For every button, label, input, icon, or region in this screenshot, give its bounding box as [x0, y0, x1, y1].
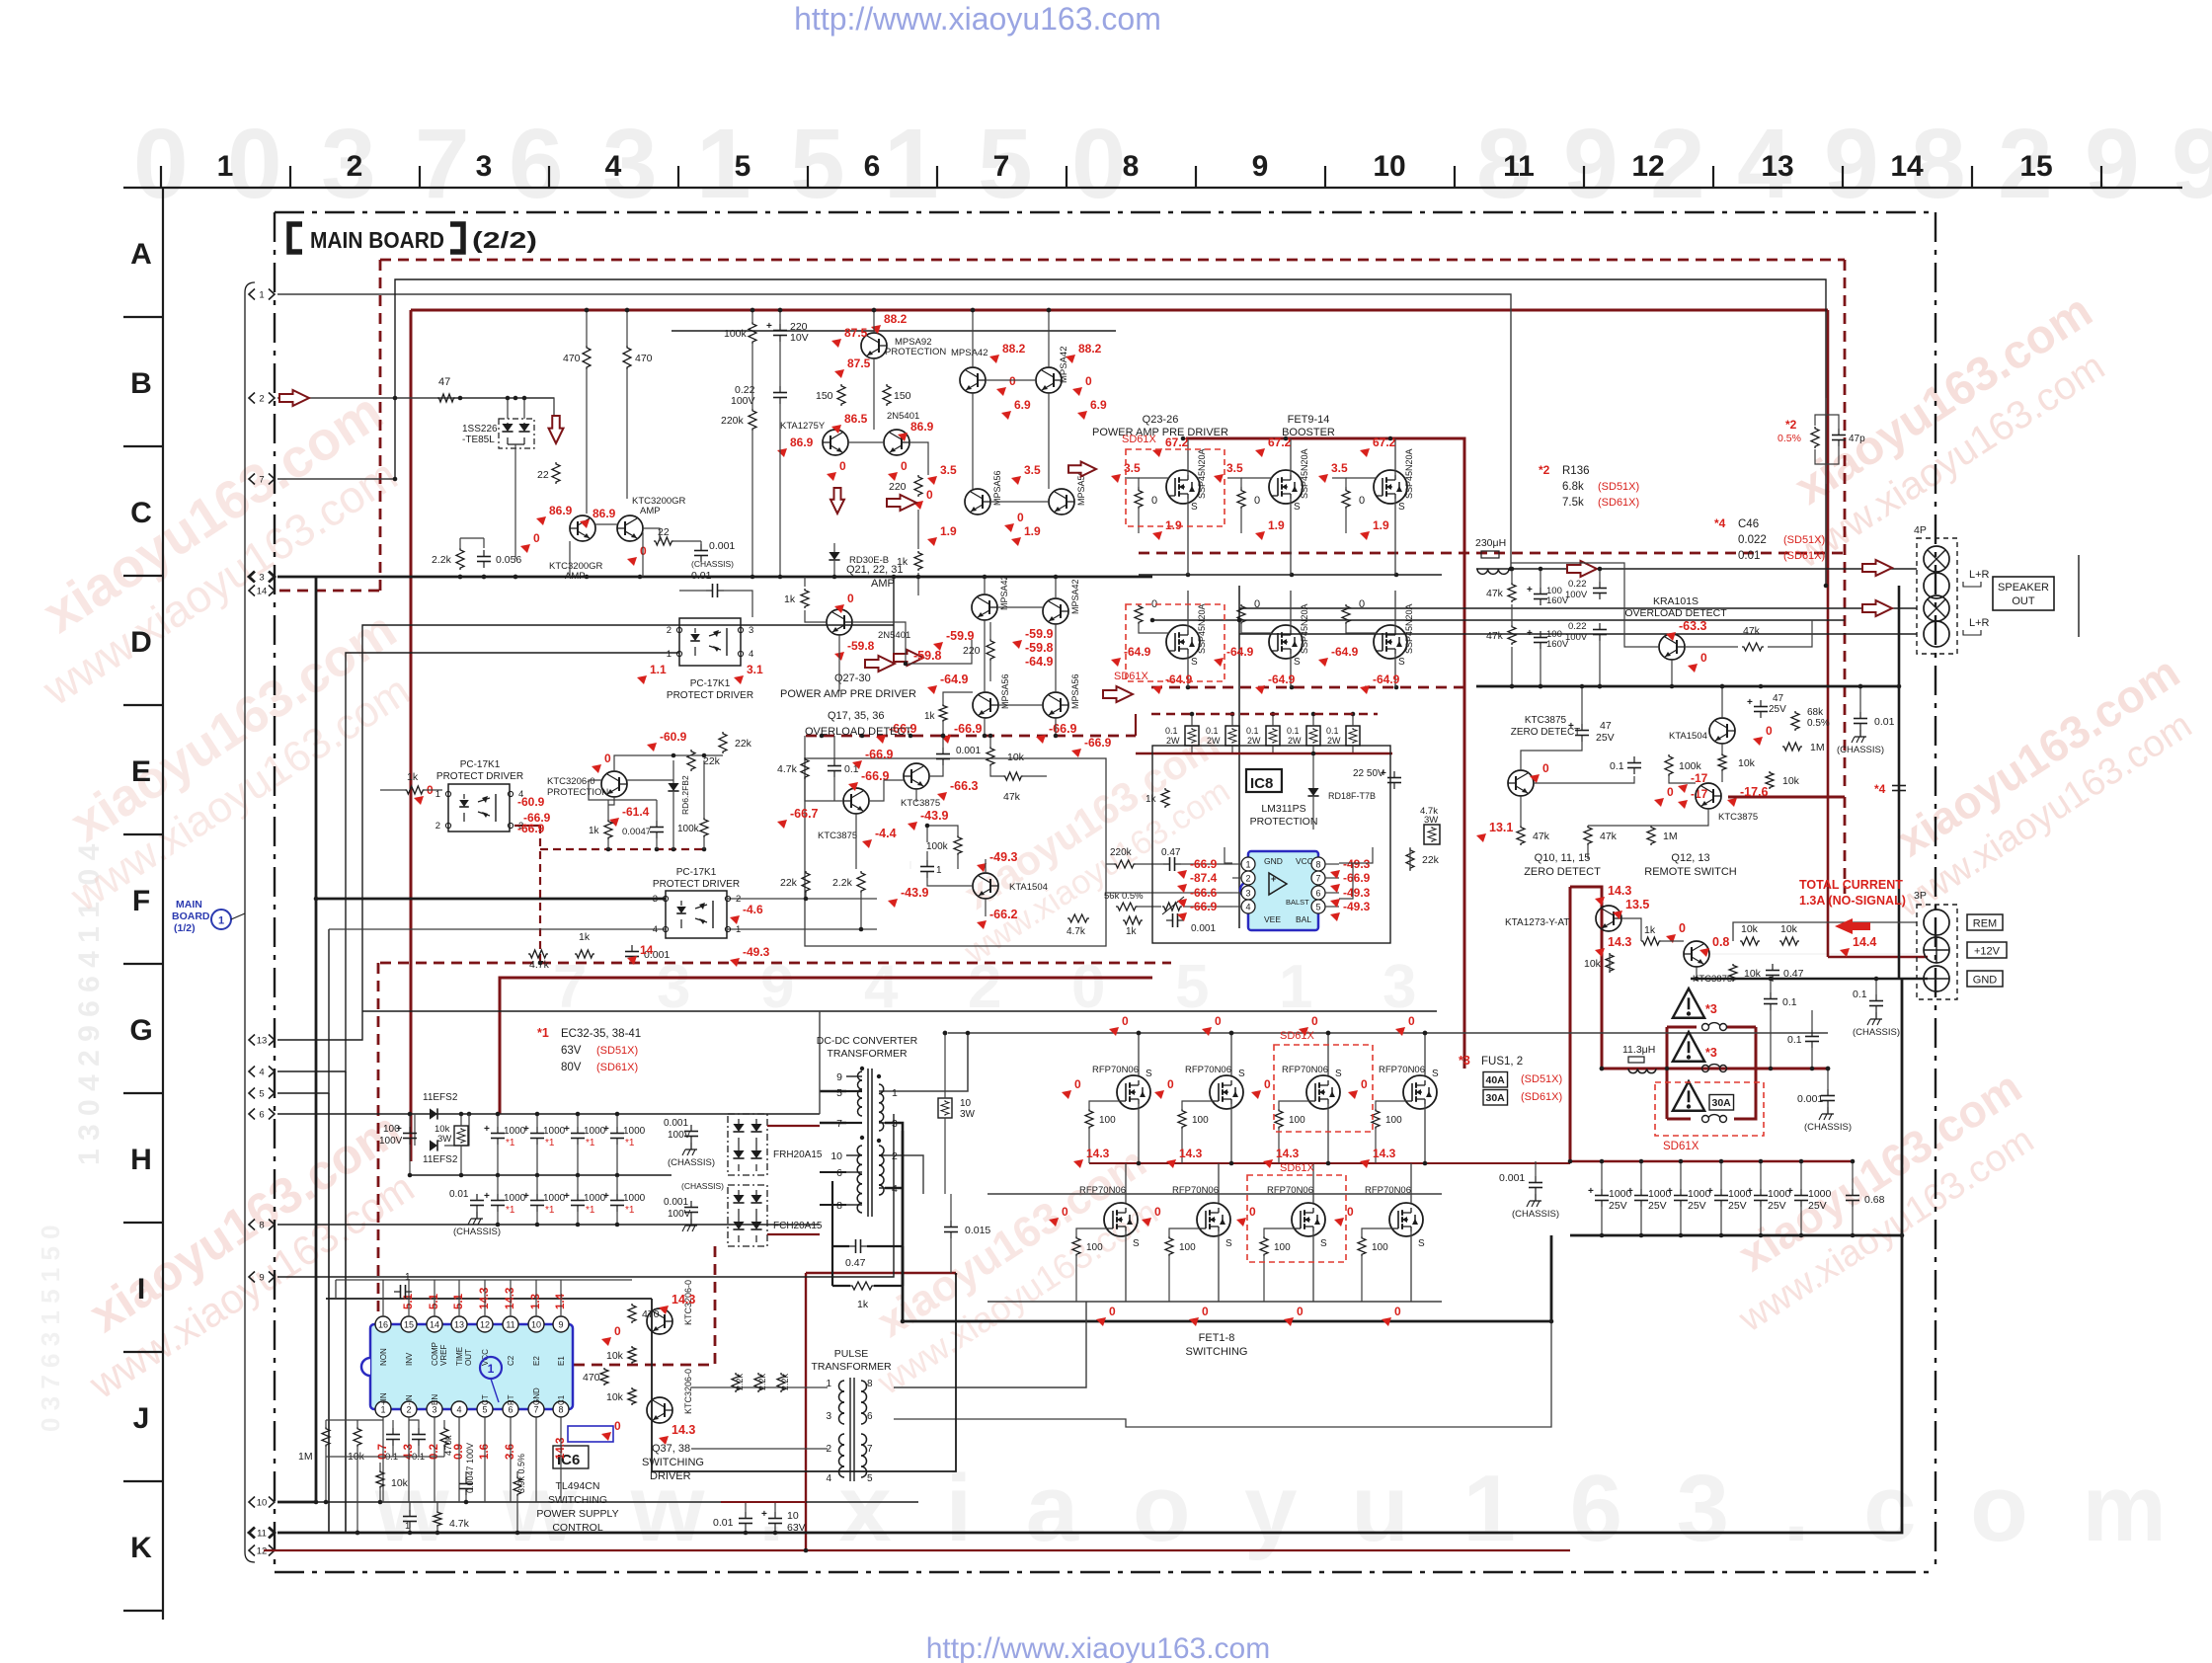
resistor 2.2k a [732, 1373, 745, 1392]
svg-text:C2: C2 [507, 1355, 515, 1366]
capacitor 0.22 100V a [1565, 579, 1607, 600]
watermark pink 2 [46, 1100, 438, 1407]
value 0 fu3 gate [1251, 1077, 1271, 1099]
svg-text:6: 6 [867, 1411, 873, 1422]
svg-text:-87.4: -87.4 [1190, 871, 1218, 885]
svg-text:0.0047 100V: 0.0047 100V [465, 1443, 475, 1493]
svg-text:0.01: 0.01 [691, 570, 712, 582]
svg-text:1k: 1k [1126, 926, 1138, 937]
svg-text:OUT: OUT [464, 1349, 473, 1366]
wire ic8 links [1224, 847, 1410, 899]
svg-text:0.47: 0.47 [1161, 847, 1181, 858]
svg-text:0: 0 [1017, 511, 1024, 524]
resistor 10k rs1 [1740, 923, 1760, 945]
diode bridge FCH20A15 [728, 1185, 823, 1246]
label Q10 11 15 [1524, 852, 1601, 878]
svg-text:9: 9 [1824, 109, 1879, 219]
value -87.4 p2 [1177, 871, 1218, 893]
svg-text:0: 0 [227, 109, 282, 219]
svg-text:-61.4: -61.4 [622, 805, 650, 819]
svg-text:FET1-8: FET1-8 [1199, 1332, 1235, 1344]
resistor 22 b [654, 526, 673, 545]
wire fet source bus [987, 1193, 1442, 1195]
value -60.9 optoE [517, 795, 545, 809]
resistor 4.7k ic8in [1066, 914, 1089, 937]
arrow -59.8 [894, 650, 923, 666]
svg-text:0.1: 0.1 [1787, 1034, 1802, 1046]
resistor 2.2k b [754, 1373, 767, 1392]
svg-text:+: + [1747, 697, 1753, 708]
svg-text:4: 4 [605, 150, 622, 183]
capacitor bank 1000 row2 [484, 1175, 646, 1227]
resistor 1M r [1782, 742, 1825, 753]
svg-text:http://www.xiaoyu163.com: http://www.xiaoyu163.com [794, 1, 1161, 37]
svg-text:88.2: 88.2 [884, 312, 908, 326]
value 0 fl1 src [1096, 1305, 1116, 1326]
svg-text:SSP45N20A: SSP45N20A [1404, 448, 1414, 499]
wire amp mid 628 [1152, 619, 1845, 621]
value -66.9 p1 [1177, 857, 1218, 879]
svg-text:5: 5 [867, 1473, 873, 1484]
wire optoF thin [329, 928, 666, 930]
capacitor *4 [1874, 779, 1906, 797]
wire gnd bus [1691, 978, 1928, 981]
fuse FUS2 [1702, 1065, 1727, 1072]
svg-text:9: 9 [2085, 109, 2140, 219]
svg-text:PROTECTION: PROTECTION [1250, 816, 1318, 828]
svg-text:3: 3 [892, 1118, 898, 1130]
svg-text:0.8: 0.8 [1712, 935, 1729, 949]
capacitor 0.1 ic6 a [385, 1428, 400, 1463]
svg-text:S: S [1238, 1069, 1245, 1079]
value -66.9 s2 [941, 722, 983, 744]
svg-text:3W: 3W [437, 1134, 451, 1145]
resistor 22k f2 [780, 871, 810, 901]
svg-text:12: 12 [480, 1320, 490, 1330]
inductor 230uH [1475, 537, 1509, 574]
svg-text:0.47: 0.47 [1783, 968, 1804, 980]
optocoupler PC-17K1 D [667, 618, 754, 666]
svg-text:0: 0 [1151, 495, 1157, 507]
value -4.6 optoF [730, 903, 763, 924]
svg-text:-63.3: -63.3 [1679, 619, 1707, 633]
wire maroon fuse bottom stub [1667, 1118, 1691, 1121]
wire maroon vertical 1590 [1569, 887, 1572, 1161]
transistor Q KTC3200GR b [617, 496, 686, 541]
svg-text:J: J [133, 1402, 150, 1435]
svg-text:0: 0 [1361, 1077, 1368, 1091]
resistor 10k 3W [434, 1124, 468, 1146]
capacitor 0.001 100V h1 [664, 1118, 715, 1168]
svg-text:(SD61X): (SD61X) [1783, 550, 1825, 562]
svg-text:+: + [1667, 1186, 1673, 1197]
diode 11EFS2 b [415, 1114, 469, 1165]
capacitor 0.015 [944, 1194, 990, 1273]
wire maroon dashed right elbow [1728, 796, 1845, 799]
capacitor 0.22 100V b [1565, 621, 1607, 643]
wire vert 905 thick [893, 577, 895, 653]
svg-text:INV: INV [405, 1352, 414, 1366]
svg-text:2W: 2W [1247, 736, 1261, 746]
svg-text:-64.9: -64.9 [940, 673, 969, 686]
capacitor 0.001 top [691, 540, 735, 569]
svg-text:-64.9: -64.9 [1331, 645, 1359, 659]
wire dcdc left4 [820, 1204, 846, 1206]
svg-text:1: 1 [667, 649, 671, 660]
svg-text:Q10, 11, 15: Q10, 11, 15 [1535, 852, 1591, 864]
wire speaker lower [1239, 607, 1917, 609]
wire switch bottom bus thick [903, 1320, 1551, 1323]
svg-text:PROTECT DRIVER: PROTECT DRIVER [653, 879, 740, 890]
svg-text:1: 1 [405, 1272, 411, 1283]
svg-text:RFP70N06: RFP70N06 [1282, 1065, 1328, 1075]
svg-text:4.7k: 4.7k [449, 1518, 470, 1530]
capacitor 0.1 chassis f [1853, 979, 1900, 1038]
svg-text:100: 100 [1086, 1242, 1103, 1253]
capacitor bank 1000 row1 [484, 1112, 646, 1178]
wire maroon dashed lower source bus [1151, 685, 1464, 690]
svg-text:30A: 30A [1712, 1097, 1732, 1109]
svg-text:(CHASSIS): (CHASSIS) [1853, 1027, 1900, 1038]
svg-text:0: 0 [614, 1324, 621, 1338]
svg-text:0: 0 [1009, 374, 1016, 388]
svg-text:67.2: 67.2 [1373, 436, 1396, 449]
off-page connector brace [245, 282, 255, 1562]
warning triangle 2 [1673, 1032, 1717, 1062]
svg-text:*4: *4 [1874, 782, 1886, 796]
wire speaker upper [1476, 568, 1917, 570]
mosfet SSP45N20A upper 2 [1227, 438, 1309, 575]
svg-text:REMOTE SWITCH: REMOTE SWITCH [1644, 866, 1737, 878]
svg-text:I: I [137, 1273, 145, 1306]
svg-text:-49.3: -49.3 [1343, 900, 1371, 913]
svg-text:11: 11 [1503, 150, 1535, 183]
svg-text:47: 47 [1600, 720, 1612, 732]
svg-text:(CHASSIS): (CHASSIS) [668, 1157, 715, 1168]
wire maroon dashed mid bus 560 [1139, 552, 1845, 555]
wire maroon loop zero-detect [1570, 887, 1602, 1069]
svg-text:SD61X: SD61X [1114, 671, 1149, 682]
svg-text:220k: 220k [721, 415, 745, 427]
svg-text:KTC3875: KTC3875 [1718, 812, 1758, 823]
svg-text:RFP70N06: RFP70N06 [1267, 1185, 1313, 1196]
resistor 1k ic8 [1145, 788, 1169, 808]
resistor 10k rs2 [1779, 923, 1799, 945]
svg-text:10k: 10k [1584, 958, 1602, 970]
svg-text:2: 2 [892, 1150, 898, 1162]
value 0 fu4 gate [1348, 1077, 1368, 1099]
svg-text:(SD61X): (SD61X) [1521, 1091, 1562, 1103]
wire pulse out2 [894, 1321, 1551, 1427]
transistor MPSA42 t2 [1036, 347, 1069, 394]
svg-text:POWER SUPPLY: POWER SUPPLY [536, 1508, 618, 1520]
svg-text:K: K [130, 1532, 152, 1564]
svg-text:9: 9 [2172, 109, 2212, 219]
svg-text:MPSA42: MPSA42 [951, 348, 988, 358]
value 14.3 q38 [659, 1423, 695, 1445]
value 0 kta1504 [1753, 724, 1773, 746]
svg-text:9: 9 [1563, 109, 1619, 219]
ghost watermark bottom [374, 1456, 2180, 1561]
svg-text:DRIVER: DRIVER [650, 1470, 691, 1482]
svg-text:100: 100 [1385, 1115, 1402, 1126]
ic6 blue box [568, 1426, 613, 1442]
value -64.9 l [927, 673, 969, 694]
resistor 10k ic6 [348, 1427, 365, 1463]
resistor 1k ic8in [1123, 916, 1143, 937]
svg-text:0.1: 0.1 [1206, 726, 1219, 736]
wire maroon booster rail [1186, 438, 1464, 1069]
svg-text:C46: C46 [1738, 518, 1759, 530]
svg-text:RT: RT [507, 1394, 515, 1405]
svg-text:POWER AMP PRE DRIVER: POWER AMP PRE DRIVER [780, 688, 916, 700]
label Q27-30 [780, 673, 916, 700]
svg-text:RD30E-B: RD30E-B [849, 555, 889, 566]
transistor MPSA42 t1 [951, 348, 988, 393]
wire maroon +B rail top [411, 309, 1828, 312]
svg-text:*1: *1 [537, 1026, 549, 1040]
svg-text:2: 2 [435, 821, 440, 831]
svg-text:0.1: 0.1 [1853, 989, 1867, 1000]
svg-text:1M: 1M [298, 1451, 313, 1463]
connector chevron 13 [249, 1035, 275, 1047]
value 14.3 ra [1595, 884, 1631, 906]
svg-text:22k: 22k [780, 877, 798, 889]
value 13.5 ra [1613, 898, 1649, 919]
value 0 rs [1666, 921, 1686, 943]
svg-text:10k: 10k [1744, 968, 1762, 980]
transformer pulse [826, 1378, 873, 1484]
svg-text:14.3: 14.3 [1276, 1147, 1300, 1160]
svg-text:1.1: 1.1 [650, 663, 667, 676]
svg-text:G: G [129, 1014, 152, 1047]
capacitor 0.47 rs [1766, 964, 1804, 982]
svg-text:9: 9 [1252, 150, 1269, 183]
wire pulse out [894, 1302, 1086, 1387]
svg-text:RD18F-T7B: RD18F-T7B [1328, 791, 1376, 801]
resistor 10k ic6 b [376, 1470, 409, 1489]
resistor 47 [437, 376, 455, 402]
svg-text:-66.9: -66.9 [865, 748, 894, 761]
svg-text:L+R: L+R [1969, 569, 1990, 581]
svg-text:1.9: 1.9 [940, 524, 957, 538]
svg-text:FRH20A15: FRH20A15 [773, 1149, 823, 1160]
svg-text:AMP: AMP [640, 506, 661, 516]
value -43.9 e2 [908, 809, 949, 831]
resistor 470 q38 [583, 1368, 608, 1386]
fuse FUS1 [1702, 1023, 1727, 1031]
wire switch box top [362, 1010, 1437, 1012]
svg-text:VEE: VEE [1264, 914, 1281, 924]
value 0 fl2 gate [1142, 1205, 1161, 1227]
wire kra [1511, 563, 1812, 686]
value -49.3 e [977, 850, 1018, 872]
value -17 b [1678, 787, 1708, 809]
resistor 220k ic8in [1110, 847, 1136, 868]
resistor 47k z1 [1517, 826, 1550, 845]
svg-text:0.1: 0.1 [1782, 996, 1797, 1008]
svg-text:13.1: 13.1 [1489, 821, 1513, 834]
resistor 1M ic6 [298, 1427, 330, 1463]
svg-text:47k: 47k [1486, 630, 1504, 642]
svg-text:TIME: TIME [455, 1347, 464, 1366]
svg-text:*1: *1 [625, 1205, 635, 1216]
watermark bottom url [926, 1632, 1271, 1663]
label DC-DC transformer [817, 1035, 918, 1060]
wire maroon dashed to chevron 14 [279, 590, 380, 593]
wire KTC pair [570, 524, 643, 577]
svg-text:-64.9: -64.9 [1025, 655, 1054, 669]
svg-text:Q37, 38: Q37, 38 [652, 1443, 690, 1455]
svg-text:100k: 100k [724, 328, 748, 340]
label KTA1273 [1505, 917, 1569, 928]
svg-text:4: 4 [456, 1405, 461, 1415]
wire 470 rails [585, 308, 630, 514]
svg-text:25V: 25V [1609, 1200, 1627, 1212]
resistor 47k e [1003, 772, 1023, 803]
resistor 100k zd [1665, 754, 1702, 776]
value -59.8 a [834, 639, 942, 663]
svg-text:80V: 80V [561, 1062, 582, 1073]
value -66.3 e [937, 779, 979, 801]
svg-text:6: 6 [509, 109, 564, 219]
svg-text:220k: 220k [1110, 847, 1133, 858]
warning triangle 3 [1673, 1081, 1734, 1111]
mosfet SSP45N20A lower 2 [1237, 591, 1309, 687]
svg-text:0.01: 0.01 [713, 1517, 734, 1529]
resistor 150 b [883, 384, 911, 406]
resistor 10k zd2 [1718, 753, 1756, 771]
wire maroon dashed top bus [380, 259, 1845, 262]
transformer DC-DC [830, 1067, 898, 1217]
svg-text:7: 7 [415, 109, 470, 219]
svg-text:10k: 10k [606, 1350, 624, 1362]
wire ic6 bottom rail [325, 1532, 327, 1534]
wire maroon vertical ic6 right [805, 1273, 807, 1550]
capacitor 0.22 100V [731, 384, 787, 407]
svg-text:100: 100 [1192, 1115, 1209, 1126]
svg-text:22k: 22k [735, 738, 752, 750]
svg-text:7: 7 [993, 150, 1010, 183]
watermark top url [794, 1, 1161, 37]
value 0 r2 [1654, 785, 1674, 807]
svg-text:6: 6 [836, 1167, 842, 1179]
value 0 fl3 src [1284, 1305, 1303, 1326]
svg-text:10k: 10k [1782, 775, 1800, 787]
svg-text:1000: 1000 [1808, 1188, 1832, 1200]
svg-text:63V: 63V [787, 1522, 806, 1534]
svg-text:2W: 2W [1288, 736, 1302, 746]
svg-text:4: 4 [1245, 903, 1250, 912]
svg-text:*1: *1 [625, 1138, 635, 1148]
value 14.3 f2 [1166, 1147, 1203, 1168]
value 0.8 rs [1699, 935, 1729, 957]
arrow right d [1103, 686, 1133, 702]
wire vert 914 thick [902, 1131, 905, 1321]
variable resistor ic8in [1138, 897, 1232, 914]
svg-text:-64.9: -64.9 [1226, 645, 1254, 659]
svg-text:3: 3 [259, 573, 264, 584]
svg-text:S: S [1133, 1238, 1140, 1249]
wire dcdc sec right3 [885, 1155, 923, 1194]
svg-text:-49.3: -49.3 [1343, 886, 1371, 900]
svg-text:0: 0 [1359, 598, 1365, 610]
wire rs bottom [1610, 954, 1698, 981]
resistor 220 mid [889, 475, 922, 497]
wire maroon fuse loop upper [1667, 1026, 1697, 1029]
svg-text:470k: 470k [443, 1435, 454, 1456]
wire maroon fet gate bus [1089, 1162, 1570, 1164]
capacitor 47 25V r [1747, 693, 1786, 718]
svg-text:+: + [761, 1509, 767, 1520]
svg-text:230μH: 230μH [1475, 537, 1506, 549]
svg-text:4: 4 [653, 924, 658, 935]
value -66.9 e1 [848, 769, 890, 791]
svg-text:2.2k: 2.2k [735, 1373, 745, 1390]
connector chevron 2 [249, 393, 275, 405]
label KTC3206-O E [547, 776, 608, 798]
svg-text:25V: 25V [1728, 1200, 1747, 1212]
svg-text:+: + [766, 321, 772, 332]
svg-text:0.056: 0.056 [496, 554, 521, 566]
resistor 1k low [784, 589, 809, 608]
mosfet RFP70N06 lower 2 [1165, 1163, 1232, 1302]
svg-text:150: 150 [816, 390, 833, 402]
mosfet RFP70N06 lower 1 [1072, 1163, 1140, 1302]
svg-text:-59.8: -59.8 [913, 649, 942, 663]
svg-text:8: 8 [1123, 150, 1140, 183]
svg-text:D: D [130, 626, 152, 659]
svg-text:NON: NON [379, 1348, 388, 1366]
svg-text:-59.9: -59.9 [946, 629, 975, 643]
svg-text:GND: GND [1264, 856, 1283, 866]
svg-text:11: 11 [257, 1529, 267, 1540]
connector chevron 3 [249, 572, 275, 584]
wire maroon dashed left vertical [379, 260, 382, 591]
svg-text:E2: E2 [532, 1356, 541, 1366]
resistor 220 low [963, 639, 994, 661]
svg-text:(2/2): (2/2) [472, 227, 537, 253]
resistor 1k f2 [575, 931, 594, 958]
connector chevron 11 [249, 1528, 275, 1540]
svg-text:RFP70N06: RFP70N06 [1185, 1065, 1231, 1075]
resistor 47k z2 [1584, 826, 1618, 845]
value 88.2 t1 [989, 342, 1026, 363]
svg-text:KTC3875: KTC3875 [818, 831, 857, 841]
svg-text:-66.9: -66.9 [1190, 900, 1218, 913]
resistor 1k optoE [405, 771, 425, 794]
transistor KTA1275Y [780, 421, 848, 455]
wire fet gate bus upper [1088, 1101, 1090, 1163]
wire diode out [514, 444, 516, 559]
resistor 470 q37 [628, 1304, 660, 1323]
wire vert 350 low [345, 1071, 347, 1533]
resistor 100k e2 [677, 760, 708, 849]
wire opto bus down [328, 1093, 330, 1533]
svg-text:SD61X: SD61X [1280, 1162, 1315, 1174]
svg-text:3.5: 3.5 [1226, 461, 1243, 475]
value 0 b [627, 544, 647, 566]
resistor 150 a [816, 384, 845, 406]
value -66.9 p4 [1177, 900, 1218, 921]
capacitor 0.1 e [828, 759, 859, 777]
svg-text:13.5: 13.5 [1625, 898, 1649, 911]
svg-text:5: 5 [1315, 903, 1320, 912]
wire maroon ic6 top [806, 1272, 956, 1274]
svg-text:3.5: 3.5 [1331, 461, 1348, 475]
capacitor 0.001 f [625, 945, 670, 963]
svg-text:*1: *1 [506, 1138, 515, 1148]
